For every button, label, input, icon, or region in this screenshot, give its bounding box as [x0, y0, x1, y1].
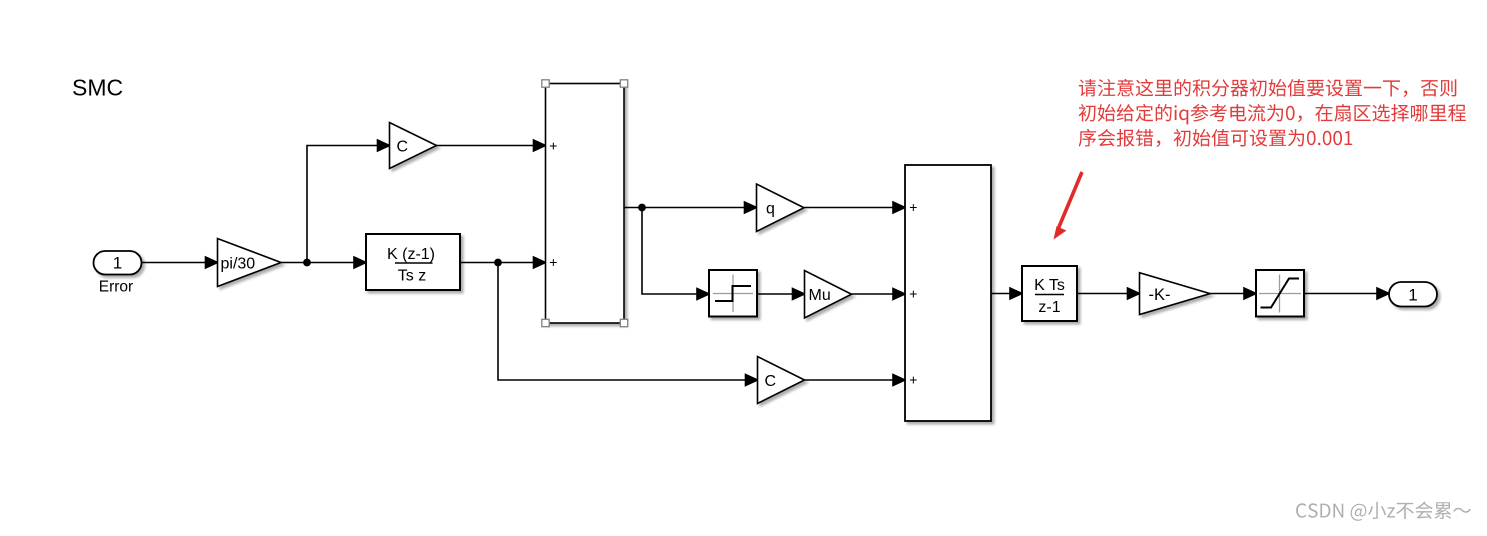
- svg-text:Error: Error: [99, 279, 133, 296]
- svg-text:SMC: SMC: [72, 75, 123, 101]
- gain block pi/30: [218, 239, 282, 287]
- wire sign block to gain Mu: [757, 289, 805, 300]
- gain block -K-: [1140, 273, 1211, 315]
- discrete integrator block K Ts/(z-1): [1022, 266, 1077, 321]
- sum block Add2: [905, 165, 991, 421]
- wire branch up to gain C: [307, 140, 390, 263]
- svg-text:K (z-1): K (z-1): [387, 246, 435, 263]
- svg-text:K Ts: K Ts: [1034, 277, 1065, 294]
- annotation red arrow: [1054, 172, 1083, 240]
- svg-text:+: +: [549, 138, 557, 154]
- wire gain q to sum2 input 1: [804, 202, 905, 213]
- svg-text:+: +: [549, 254, 557, 270]
- svg-text:+: +: [909, 199, 917, 215]
- svg-text:pi/30: pi/30: [221, 255, 256, 272]
- wire In1 to pi/30: [142, 257, 218, 268]
- wire branch down to sign block: [642, 208, 709, 300]
- wire saturation to outport: [1304, 288, 1389, 299]
- junction node on transfer fcn output: [494, 259, 502, 267]
- discrete derivative block K(z-1)/Ts z: [366, 234, 460, 290]
- svg-text:z-1: z-1: [1038, 299, 1060, 316]
- gain block C (top): [390, 123, 437, 169]
- wire sum1 output to gain q: [624, 202, 757, 213]
- svg-text:Mu: Mu: [809, 287, 831, 304]
- svg-text:C: C: [765, 373, 777, 390]
- selection handles of sum1: [542, 80, 628, 327]
- wire transfer fcn to sum1 input 2: [460, 257, 546, 268]
- svg-text:+: +: [909, 372, 917, 388]
- annotation red text line 1: [1079, 79, 1457, 97]
- wire pi/30 to transfer fcn: [281, 257, 366, 268]
- annotation red text line 2: [1079, 104, 1466, 125]
- saturation block: [1256, 270, 1304, 317]
- gain block C (bottom): [758, 357, 805, 404]
- wire gain C to sum1 input 1: [437, 140, 546, 151]
- outport block Out1 "1": [1389, 282, 1437, 307]
- junction node on pi/30 output: [303, 259, 311, 267]
- wire gain -K- to saturation: [1210, 288, 1256, 299]
- svg-text:1: 1: [113, 254, 122, 273]
- svg-text:+: +: [909, 286, 917, 302]
- inport block In1 "1" (Error): [94, 251, 142, 275]
- svg-text:C: C: [397, 138, 409, 155]
- svg-text:q: q: [766, 200, 775, 217]
- gain block Mu: [805, 271, 852, 319]
- annotation red text line 3: [1079, 129, 1353, 147]
- wire gain Mu to sum2 input 2: [852, 289, 906, 300]
- wire integrator to gain -K-: [1077, 288, 1140, 299]
- junction node on sum1 output: [638, 204, 646, 212]
- watermark CSDN: [1296, 502, 1471, 521]
- svg-text:Ts z: Ts z: [398, 268, 426, 285]
- sign function block: [709, 270, 757, 317]
- wire gain C to sum2 input 3: [805, 375, 906, 386]
- gain block q: [757, 184, 805, 232]
- wire sum2 output to integrator: [991, 288, 1022, 299]
- svg-text:-K-: -K-: [1149, 286, 1171, 304]
- svg-text:1: 1: [1408, 285, 1417, 304]
- sum block Add1 (selected): [546, 84, 625, 324]
- wire branch down to gain C (bottom): [498, 263, 758, 386]
